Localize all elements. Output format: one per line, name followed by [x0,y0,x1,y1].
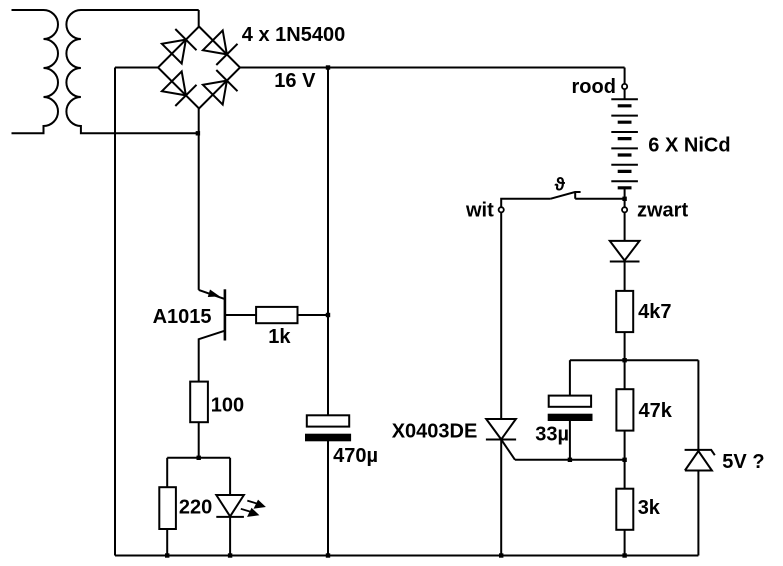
wire: node A to 47k [624,360,626,389]
wire: zener column from node A [697,360,699,450]
wire: 220 to rail [166,529,168,556]
wire: wit terminal up to switch [501,199,550,208]
diode D-UL of bridge (left to top) [162,29,197,64]
LED D2 [216,495,244,517]
resistor R4 220 [159,487,176,529]
node wit terminal circle [499,207,504,212]
svg-text:100: 100 [211,394,244,416]
capacitor C1 470u top plate [307,415,349,426]
svg-text:16 V: 16 V [274,70,316,92]
thyristor gate lead [502,440,516,460]
resistor 4k7 [616,291,633,332]
wire: diode to 4k7 [624,262,626,291]
transistor Q1 base lead [226,314,256,316]
svg-text:5V ?: 5V ? [722,451,764,473]
transformer primary winding [12,10,59,133]
node rood terminal circle [622,84,627,89]
svg-text:6 X NiCd: 6 X NiCd [648,134,730,156]
switch S1 blade [550,192,580,199]
LED light arrow 2 [241,509,258,516]
wire: rood to first cell [624,89,626,99]
transformer secondary winding [66,10,198,133]
svg-text:4k7: 4k7 [638,301,671,323]
wire: 3k to rail [624,530,626,556]
wire: 100 to LED net [198,422,200,458]
wire: 220 branch down [166,458,168,487]
wire: node A horizontal [570,359,699,361]
svg-text:33µ: 33µ [535,424,569,446]
resistor R3 100 [190,382,208,423]
wire: battery column from 16V rail to rood terminal [624,68,626,85]
wire: 16V drop column [327,68,329,416]
transistor Q1 emitter arrow [208,290,220,298]
node zwart terminal circle [622,207,627,212]
capacitor C1 470u bottom plate [306,435,350,441]
wire: 470u to rail [327,440,329,555]
wire: LED branch down [229,458,231,495]
svg-text:220: 220 [179,496,212,518]
svg-text:3k: 3k [638,497,661,519]
junction dot node B [622,458,626,462]
wire: LED net top bar [167,457,230,459]
capacitor C2 33u top plate [549,396,591,407]
junction dot 16V tap [326,65,330,69]
junction dot bridge bottom [196,131,200,135]
thyristor U1 X0403DE [486,419,516,440]
resistor 47k [616,389,633,430]
junction dot node A [622,358,626,362]
battery B1 6xNiCd cells [611,99,638,181]
diode D-LL of bridge (left to bottom) [162,71,197,106]
junction dot rail LED [228,553,232,557]
wire: zener anode to rail [697,471,699,556]
wire: left rail down [114,68,116,556]
wire: switch fixed contact to battery column [575,198,624,200]
svg-text:470µ: 470µ [333,445,378,467]
resistor 3k [616,489,633,530]
wire: 33u bottom riser [569,420,571,460]
wire: bridge bottom stub to junction [198,109,200,134]
svg-text:wit: wit [465,199,494,221]
junction dot 1k to column [326,313,330,317]
svg-text:rood: rood [572,76,616,98]
junction dot 33u at gate line [568,458,572,462]
diode D-UR of bridge (top to right) [203,30,238,65]
wire: node B horizontal (gate line) [515,459,625,461]
transistor Q1 base bar [224,289,227,340]
junction dot rail 3k [622,553,626,557]
capacitor C2 33u top riser [569,360,571,395]
diode D1 below zwart [610,241,640,262]
wire: node B to 3k [624,460,626,489]
junction dot rail 220 [165,553,169,557]
svg-text:47k: 47k [639,400,673,422]
wire: 4k7 to node A [624,332,626,360]
wire: wit column down to thyristor [500,212,502,419]
transistor Q1 collector lead [199,331,224,382]
transistor Q1 A1015 emitter lead [199,290,224,299]
wire: DC plus 16V from bridge right vertex [240,67,625,69]
wire: LED to rail [229,517,231,556]
junction dot zwart switch [622,197,626,201]
wire: bridge top stub [198,10,200,27]
wire: zwart junction down to terminal [624,199,626,208]
resistor R2 1k [256,307,297,323]
wire: last cell to zwart junction [624,188,626,199]
wire: thyristor cathode to rail [500,440,502,556]
wire: DC minus from bridge left vertex [115,67,158,69]
svg-text:1k: 1k [268,326,291,348]
wire: 47k to node B [624,431,626,460]
wire: bottom rail [115,555,698,557]
junction dot LED net [197,456,201,460]
svg-text:A1015: A1015 [153,306,212,328]
wire: zwart terminal to diode [624,212,626,241]
bridge diamond wires [158,27,240,109]
svg-text:zwart: zwart [637,199,688,221]
junction dot rail thyristor [499,553,503,557]
wire: 1k to 16V column [298,314,329,316]
svg-text:X0403DE: X0403DE [392,421,478,443]
capacitor C2 33u bottom plate [549,415,592,420]
svg-text:4 x 1N5400: 4 x 1N5400 [242,24,345,46]
zener diode Z1 5V [685,450,715,471]
diode D-LR of bridge (bottom to right) [203,70,238,105]
LED light arrow 1 [247,501,264,508]
svg-text:ϑ: ϑ [555,175,566,195]
wire: emitter column from bridge junction [198,133,200,290]
junction dot rail 470u [326,553,330,557]
